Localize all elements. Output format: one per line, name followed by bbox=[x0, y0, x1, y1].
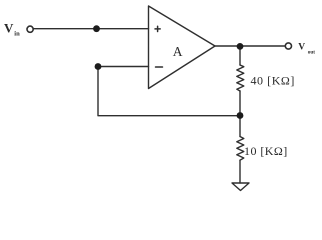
svg-text:V: V bbox=[298, 43, 305, 53]
svg-text:10 [KΩ]: 10 [KΩ] bbox=[244, 144, 288, 158]
svg-text:A: A bbox=[173, 44, 183, 59]
svg-text:V: V bbox=[4, 21, 14, 36]
svg-text:40 [KΩ]: 40 [KΩ] bbox=[251, 73, 295, 87]
svg-text:in: in bbox=[14, 31, 20, 38]
svg-text:out: out bbox=[308, 50, 315, 56]
